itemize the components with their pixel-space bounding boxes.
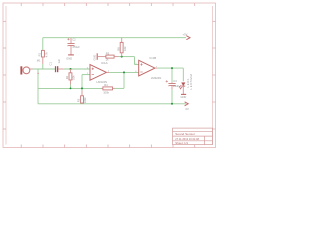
frame ticks left	[3, 21, 6, 129]
wire: mic ground drop	[37, 69, 39, 104]
svg-text:C3: C3	[173, 79, 177, 83]
svg-text:GND: GND	[93, 55, 97, 61]
wire: R1 bottom to mic node	[42, 64, 44, 69]
node: C3/0V rail junction	[171, 103, 173, 105]
resistor R1	[42, 50, 45, 64]
frame ticks top	[21, 3, 195, 6]
svg-text:470uF: 470uF	[72, 45, 80, 49]
svg-text:R4: R4	[104, 83, 108, 87]
node: IC1A output junction	[123, 71, 125, 73]
svg-text:R5: R5	[106, 51, 110, 55]
wire: rail drop to R1	[42, 38, 44, 51]
svg-text:Sound Sensor: Sound Sensor	[175, 132, 195, 136]
resistor R6	[120, 42, 123, 56]
capacitor C2 (470uF)	[67, 38, 74, 55]
wire: drop to C3	[171, 68, 173, 82]
svg-text:R6: R6	[116, 47, 120, 51]
svg-text:GND: GND	[181, 95, 187, 99]
svg-text:IC1A: IC1A	[101, 61, 108, 65]
ground under LED1	[181, 93, 186, 95]
wire: feedback rise to output	[123, 72, 125, 88]
capacitor C1	[55, 66, 63, 72]
svg-text:Sheet: 1/1: Sheet: 1/1	[175, 141, 188, 145]
node: divider junction	[121, 56, 123, 58]
svg-text:1uF: 1uF	[57, 59, 61, 64]
op-amp IC1B	[139, 60, 157, 76]
svg-text:C2: C2	[72, 38, 76, 42]
frame inner border	[5, 6, 7, 145]
svg-text:R3: R3	[77, 98, 81, 102]
svg-text:100k: 100k	[83, 97, 87, 103]
svg-text:M1: M1	[37, 59, 41, 63]
svg-text:4.7k: 4.7k	[44, 52, 48, 58]
wire: IC1A -in	[82, 74, 90, 76]
wire: divider node to IC1B +in	[119, 56, 135, 58]
svg-text:0V: 0V	[186, 107, 189, 111]
wire: drop to LED	[182, 68, 184, 81]
capacitor C3 (22uF)	[166, 80, 176, 89]
node: IC1B output junction	[171, 67, 173, 69]
svg-text:22uF: 22uF	[173, 84, 179, 88]
svg-text:GND: GND	[66, 57, 72, 61]
wire: 0V bottom rail	[38, 103, 186, 105]
svg-text:IC1B: IC1B	[150, 56, 157, 60]
svg-text:10k: 10k	[123, 46, 127, 51]
wire: IC1B out	[157, 67, 183, 69]
svg-text:LED5MM: LED5MM	[189, 73, 193, 89]
supply 0V arrow	[185, 102, 189, 106]
svg-text:+5V: +5V	[183, 32, 188, 36]
ground under C2	[68, 54, 74, 56]
wire: C3 bottom to 0V rail	[171, 89, 173, 104]
wire: feedback line lower	[38, 87, 101, 89]
frame ticks bottom	[21, 145, 195, 148]
op-amp IC1A	[90, 65, 109, 81]
svg-text:LM324N: LM324N	[151, 76, 162, 80]
wire: C1 to IC1A +in	[63, 68, 90, 70]
svg-text:R2: R2	[65, 75, 69, 79]
frame outer border	[3, 3, 216, 148]
wire: R6 top to rail	[121, 38, 123, 43]
svg-text:10k: 10k	[72, 75, 76, 80]
resistor R5	[106, 55, 119, 58]
wire: IC1A out to IC1B -in	[109, 71, 139, 73]
frame ticks right	[213, 21, 216, 129]
node: feedback/-in junction	[81, 87, 83, 89]
wire: mic to C1	[33, 68, 56, 70]
LED1	[179, 83, 185, 94]
svg-text:100k: 100k	[103, 91, 109, 95]
resistor R3 (to 0V)	[81, 91, 84, 104]
wire: +5V top rail	[43, 37, 186, 39]
supply +5V arrow	[186, 36, 190, 40]
node: R2 bottom junction	[70, 88, 72, 90]
node: C1/R2/+in junction	[70, 68, 72, 70]
resistor R2	[69, 69, 72, 85]
svg-text:R1: R1	[38, 52, 42, 56]
wire: R2 bottom to feedback line	[70, 85, 72, 89]
resistor R4 (feedback)	[101, 87, 115, 90]
svg-text:C1: C1	[49, 62, 53, 66]
title block	[173, 128, 213, 145]
microphone M1	[20, 66, 38, 74]
ground rotated (left of R5)	[97, 53, 106, 60]
